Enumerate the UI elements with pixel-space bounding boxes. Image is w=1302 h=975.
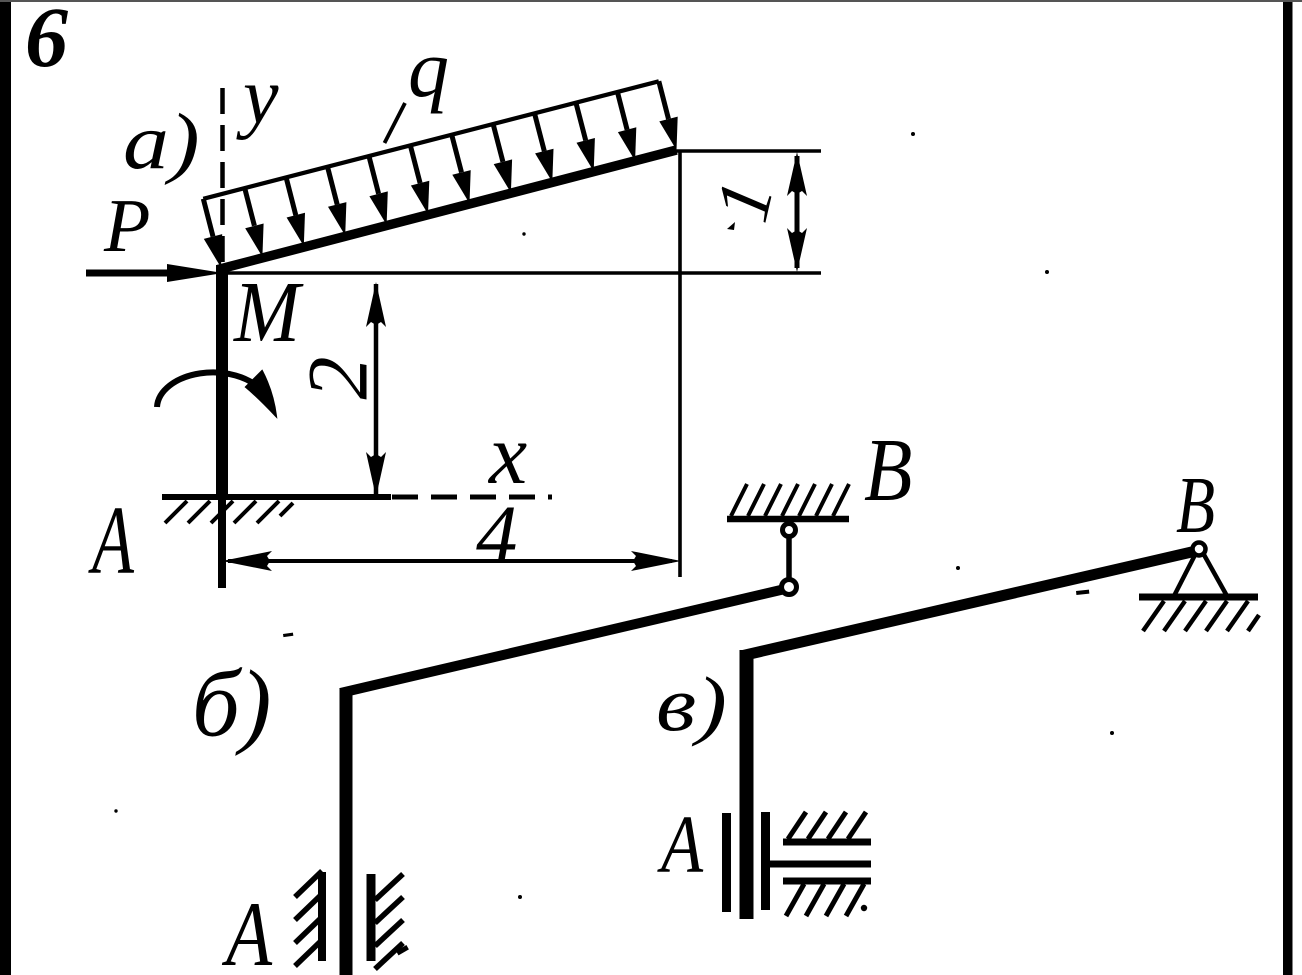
dimension label 2 (rotated) (290, 357, 386, 400)
support label A (fig a) (88, 487, 134, 595)
svg-text:в): в) (656, 662, 727, 747)
force P label (103, 184, 150, 268)
support B link: upper pin (783, 524, 796, 537)
force P arrow (86, 264, 223, 282)
dimension label 4 (476, 488, 518, 580)
support label A (fig в) (656, 799, 703, 890)
support B link bar (786, 536, 792, 580)
moment M arc with arrowhead (157, 371, 276, 416)
support A of fig в: top wall line (783, 839, 871, 846)
support A ground line (fig a) (162, 494, 391, 500)
dimension line 2 (vertical, double arrow) (366, 282, 386, 497)
svg-text:y: y (236, 53, 279, 141)
right page border (1283, 0, 1293, 975)
load label q (408, 23, 449, 114)
svg-text:6: 6 (25, 0, 68, 85)
svg-text:a): a) (123, 97, 200, 186)
support label B (fig б) (864, 420, 912, 520)
support A of fig в: top hatching (788, 812, 866, 839)
svg-text:1: 1 (699, 173, 789, 229)
horizontal reference line at beam tip level (676, 149, 821, 152)
support label B (fig в) (1176, 460, 1215, 549)
svg-text:M: M (233, 264, 304, 360)
svg-text:B: B (864, 420, 912, 520)
distributed load q: top edge line (203, 81, 659, 199)
dimension line 4 (horizontal, double arrow) (222, 551, 681, 571)
support A of fig б: left wall line (318, 872, 326, 961)
left page border (0, 0, 11, 975)
support A of fig в: left guide line (722, 813, 731, 912)
column of frame a (member A-joint) (216, 265, 228, 497)
sub-figure label a) (123, 97, 200, 186)
support B ceiling line (727, 516, 849, 523)
svg-text:q: q (408, 23, 449, 114)
svg-text:B: B (1176, 460, 1215, 549)
support B triangle legs (fig в) (1174, 553, 1227, 596)
frame в vertical member (740, 650, 754, 919)
x axis (dashed) (392, 495, 552, 500)
support B ground hatching (fig в) (1143, 601, 1259, 631)
vertical extension line at beam tip (678, 151, 682, 577)
dimension line 1 (vertical, double arrow) (787, 152, 807, 272)
distributed load q: arrows (203, 81, 677, 267)
svg-text:4: 4 (476, 488, 518, 580)
frame b vertical member (340, 688, 353, 975)
top page border (0, 0, 1302, 2)
svg-text:б): б) (192, 651, 271, 757)
x axis label (487, 406, 527, 502)
y axis label (236, 53, 279, 141)
scan specks (114, 132, 1114, 899)
column extension below ground (218, 497, 226, 588)
frame в inclined member (741, 551, 1196, 656)
svg-text:A: A (88, 487, 134, 595)
dimension label 1 (rotated) (699, 173, 789, 229)
support A of fig в: middle slider bar (768, 861, 871, 868)
svg-text:A: A (656, 799, 703, 890)
horizontal reference line at joint level (222, 271, 821, 274)
load label q leader line (385, 103, 406, 143)
svg-text:P: P (103, 184, 150, 268)
support A of fig б: right hatching (375, 874, 409, 969)
support B ground line (fig в) (1139, 594, 1258, 601)
beam of frame a (inclined member) (218, 150, 677, 270)
support B pin (fig в) (1193, 543, 1206, 556)
frame b inclined member (341, 589, 786, 693)
support A hatching (fig a) (165, 501, 293, 523)
y axis (dashed) (220, 88, 225, 265)
svg-text:2: 2 (290, 357, 386, 400)
problem number 6 (25, 0, 68, 85)
sub-figure label в) (656, 662, 727, 747)
support B link: lower pin (782, 580, 797, 595)
support A of fig б: right wall line (367, 874, 376, 961)
support A of fig б: left hatching (295, 871, 322, 966)
sub-figure label б) (192, 651, 271, 757)
support A of fig в: bottom wall line (783, 878, 871, 885)
support A of fig в: bottom hatching (786, 884, 867, 916)
moment M label (233, 264, 304, 360)
support B ceiling hatching (731, 484, 849, 516)
support label A (fig б) (222, 884, 273, 975)
svg-text:A: A (222, 884, 273, 975)
support A of fig в: right guide line (761, 812, 770, 910)
